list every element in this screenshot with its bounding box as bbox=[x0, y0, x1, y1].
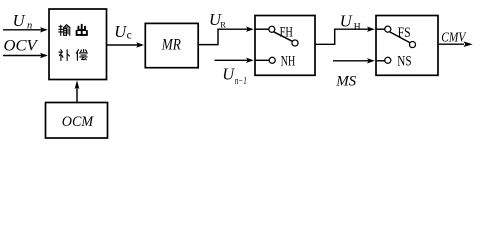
svg-text:R: R bbox=[220, 19, 226, 29]
svg-text:n−1: n−1 bbox=[235, 76, 247, 87]
svg-text:H: H bbox=[354, 22, 361, 32]
svg-text:OCM: OCM bbox=[62, 114, 95, 130]
svg-text:NH: NH bbox=[281, 53, 296, 69]
svg-text:U: U bbox=[222, 64, 235, 83]
svg-text:MS: MS bbox=[335, 74, 356, 90]
svg-text:U: U bbox=[340, 11, 353, 30]
svg-text:U: U bbox=[114, 22, 127, 41]
svg-text:c: c bbox=[127, 30, 132, 42]
svg-text:U: U bbox=[13, 11, 26, 30]
svg-text:FS: FS bbox=[398, 25, 411, 41]
svg-text:CMV: CMV bbox=[441, 30, 466, 45]
svg-text:NS: NS bbox=[397, 53, 411, 69]
svg-text:n: n bbox=[27, 20, 32, 31]
svg-text:OCV: OCV bbox=[4, 37, 40, 54]
svg-text:FH: FH bbox=[280, 24, 294, 40]
svg-text:MR: MR bbox=[161, 36, 181, 53]
